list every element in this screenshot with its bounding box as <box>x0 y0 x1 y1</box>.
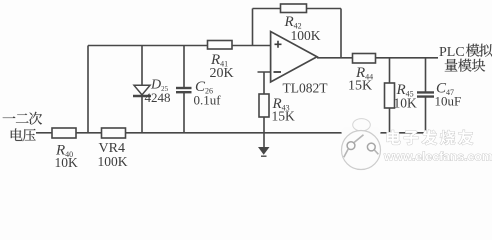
label VR4 designator <box>99 141 125 156</box>
diode D25 symbol <box>133 85 151 96</box>
svg-text:10K: 10K <box>55 155 79 170</box>
watermark logo circle <box>342 131 381 170</box>
label R45 designator <box>396 82 414 99</box>
svg-text:10K: 10K <box>394 96 418 111</box>
svg-text:4248: 4248 <box>145 90 171 105</box>
wire C26 branch lower <box>183 93 185 133</box>
wire C26 branch upper <box>183 46 185 88</box>
label R40 value <box>55 155 79 170</box>
wire bottom bus <box>52 132 426 134</box>
label PLC analog module line1 <box>439 44 492 60</box>
label VR4 value <box>98 154 128 169</box>
label U1 part number TL082T <box>283 81 329 96</box>
node label input voltage line1 <box>3 112 42 125</box>
wire inverting input stub <box>258 72 271 133</box>
wire feedback left vertical <box>252 9 254 46</box>
resistor R42 body <box>281 4 307 13</box>
wire R45 branch <box>389 58 391 133</box>
label R44 designator <box>355 65 373 82</box>
node label input voltage line2 <box>11 128 36 141</box>
wire C47 branch lower <box>425 97 427 133</box>
svg-text:10uF: 10uF <box>435 94 462 109</box>
svg-text:PLC: PLC <box>439 45 465 60</box>
label C26 value <box>194 93 222 108</box>
ground symbol <box>258 147 270 156</box>
wire ground stem <box>263 133 265 148</box>
label C47 designator <box>436 80 454 97</box>
label R43 value <box>272 109 296 124</box>
label C47 value <box>435 94 462 109</box>
label R42 value <box>291 28 321 43</box>
resistor R45 body <box>385 83 395 108</box>
wire feedback right vertical <box>340 9 342 58</box>
resistor R44 body <box>353 54 376 64</box>
label C26 designator <box>195 79 213 96</box>
label D25 designator <box>150 78 169 94</box>
svg-text:15K: 15K <box>348 79 372 94</box>
wire left vertical (R40/VR4 node to top bus) <box>87 46 89 133</box>
svg-text:100K: 100K <box>98 154 128 169</box>
resistor R43 body <box>259 94 269 117</box>
label R41 designator <box>210 52 228 69</box>
resistor R41 body <box>208 41 233 50</box>
op-amp U1 TL082T triangle <box>271 32 317 83</box>
resistor VR4 body <box>102 128 126 138</box>
wire top bus <box>88 45 271 47</box>
label D25 value <box>145 90 171 105</box>
wire diode branch <box>141 46 143 133</box>
svg-text:0.1uf: 0.1uf <box>194 93 222 108</box>
label R41 value <box>210 66 234 81</box>
svg-text:15K: 15K <box>272 109 296 124</box>
svg-text:www.elecfans.com: www.elecfans.com <box>383 150 492 164</box>
wire feedback top <box>253 8 342 10</box>
wire C47 branch upper <box>425 58 427 92</box>
capacitor C47 plates <box>417 92 434 96</box>
label R44 value <box>348 79 372 94</box>
wire op-amp output wire <box>317 57 438 59</box>
label R43 designator <box>272 96 290 113</box>
svg-text:20K: 20K <box>210 66 234 81</box>
resistor R40 body <box>52 128 76 138</box>
watermark text elecfans <box>387 130 473 145</box>
svg-text:TL082T: TL082T <box>283 81 329 96</box>
capacitor C26 plates <box>176 88 192 92</box>
svg-text:100K: 100K <box>291 28 321 43</box>
watermark logo blob <box>342 119 381 137</box>
wire input lead <box>36 132 52 134</box>
label PLC analog module line2 <box>445 59 485 72</box>
label R45 value <box>394 96 418 111</box>
label R40 designator <box>55 143 73 160</box>
label R42 designator <box>284 14 302 31</box>
watermark url <box>383 150 492 164</box>
